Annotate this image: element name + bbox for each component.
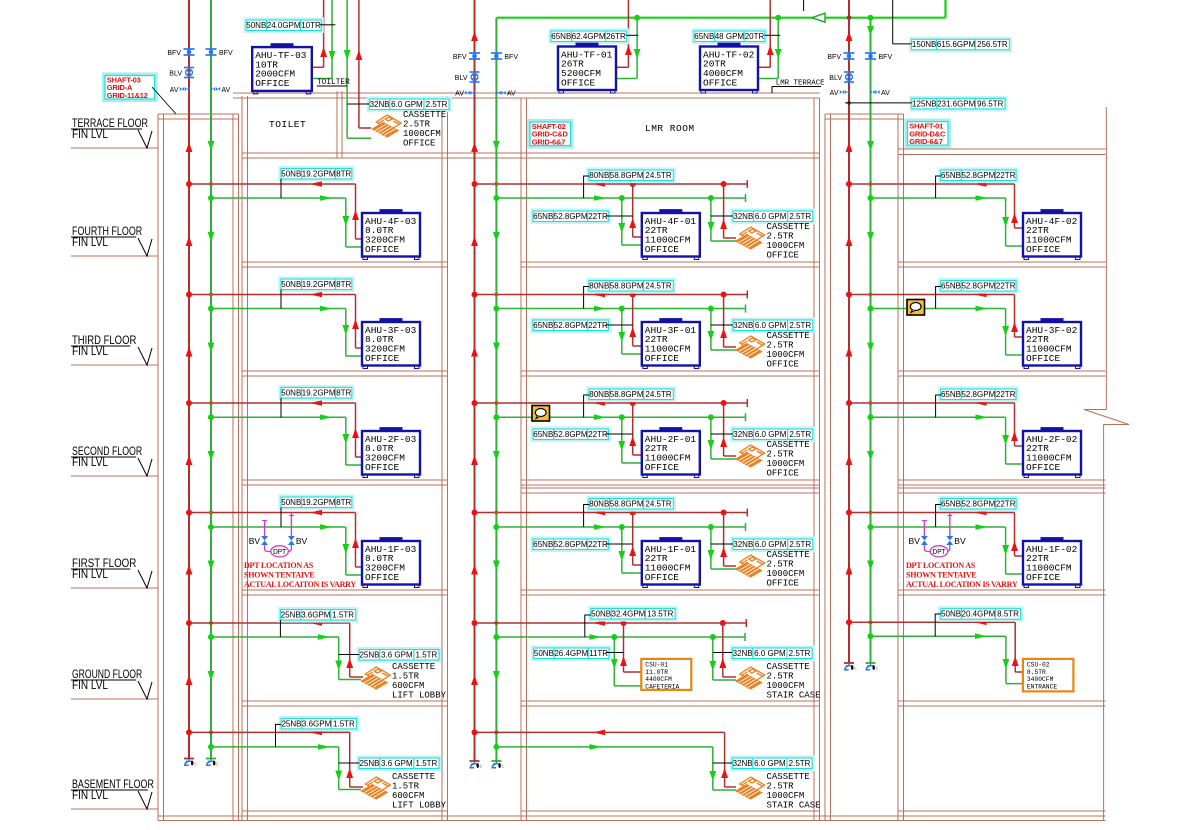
- svg-text:11TR: 11TR: [589, 649, 608, 658]
- svg-text:6.0 GPM: 6.0 GPM: [754, 649, 786, 658]
- svg-text:32NB: 32NB: [733, 649, 753, 658]
- svg-text:OFFICE: OFFICE: [767, 578, 799, 588]
- svg-text:8TR: 8TR: [336, 388, 351, 397]
- svg-text:LMR ROOM: LMR ROOM: [645, 123, 695, 134]
- svg-text:50NB: 50NB: [246, 21, 266, 30]
- svg-text:3.6GPM: 3.6GPM: [301, 610, 331, 619]
- svg-text:ENTRANCE: ENTRANCE: [1027, 684, 1057, 691]
- svg-text:TOILET: TOILET: [269, 119, 306, 130]
- svg-text:OFFICE: OFFICE: [645, 353, 680, 364]
- svg-text:65NB: 65NB: [551, 32, 571, 41]
- svg-text:25NB: 25NB: [359, 650, 379, 659]
- svg-text:c: c: [854, 666, 857, 672]
- svg-text:20.4GPM: 20.4GPM: [962, 610, 996, 619]
- svg-text:32NB: 32NB: [733, 321, 753, 330]
- svg-text:4400CFM: 4400CFM: [645, 676, 672, 683]
- svg-text:58.8GPM: 58.8GPM: [610, 499, 644, 508]
- svg-text:6.0 GPM: 6.0 GPM: [755, 430, 787, 439]
- svg-text:65NB: 65NB: [941, 390, 961, 399]
- svg-text:2.5TR: 2.5TR: [789, 321, 811, 330]
- svg-text:DPT: DPT: [273, 547, 286, 556]
- svg-text:BV: BV: [249, 536, 261, 546]
- svg-text:32.4GPM: 32.4GPM: [612, 609, 646, 618]
- svg-text:32NB: 32NB: [733, 430, 753, 439]
- svg-text:65NB: 65NB: [694, 32, 714, 41]
- svg-text:c: c: [194, 762, 197, 768]
- svg-text:BFV: BFV: [879, 54, 893, 61]
- svg-text:OFFICE: OFFICE: [365, 462, 400, 473]
- svg-text:58.8GPM: 58.8GPM: [610, 171, 644, 180]
- svg-text:AV: AV: [830, 90, 839, 97]
- svg-text:OFFICE: OFFICE: [767, 250, 799, 260]
- svg-text:65NB: 65NB: [533, 321, 553, 330]
- svg-text:24.5TR: 24.5TR: [645, 171, 671, 180]
- svg-text:BFV: BFV: [504, 54, 518, 61]
- svg-text:65NB: 65NB: [941, 281, 961, 290]
- svg-text:GRID-11&12: GRID-11&12: [107, 91, 148, 100]
- svg-text:22TR: 22TR: [588, 212, 608, 221]
- svg-text:19.2GPM: 19.2GPM: [302, 169, 336, 178]
- svg-text:80NB: 80NB: [589, 499, 609, 508]
- svg-text:LIFT LOBBY: LIFT LOBBY: [392, 800, 447, 810]
- svg-text:50NB: 50NB: [281, 388, 301, 397]
- svg-text:BLV: BLV: [829, 75, 842, 82]
- svg-text:2.5TR: 2.5TR: [789, 649, 811, 658]
- svg-text:58.8GPM: 58.8GPM: [610, 390, 644, 399]
- svg-text:50NB: 50NB: [941, 610, 961, 619]
- svg-text:80NB: 80NB: [589, 390, 609, 399]
- svg-text:231.6GPM: 231.6GPM: [937, 99, 976, 108]
- svg-text:32NB: 32NB: [370, 100, 390, 109]
- svg-text:3.6 GPM: 3.6 GPM: [381, 650, 413, 659]
- svg-text:OFFICE: OFFICE: [365, 572, 400, 583]
- svg-text:52.8GPM: 52.8GPM: [961, 499, 995, 508]
- svg-text:96.5TR: 96.5TR: [977, 99, 1003, 108]
- svg-text:50NB: 50NB: [281, 280, 301, 289]
- svg-text:STAIR CASE: STAIR CASE: [767, 800, 821, 810]
- svg-text:19.2GPM: 19.2GPM: [302, 280, 336, 289]
- svg-text:1.5TR: 1.5TR: [416, 759, 438, 768]
- svg-text:OFFICE: OFFICE: [1026, 353, 1061, 364]
- svg-text:OFFICE: OFFICE: [365, 353, 400, 364]
- svg-text:32NB: 32NB: [733, 212, 753, 221]
- svg-text:3.6GPM: 3.6GPM: [302, 719, 332, 728]
- svg-text:6.0 GPM: 6.0 GPM: [755, 321, 787, 330]
- svg-text:25NB: 25NB: [281, 719, 301, 728]
- svg-text:50NB: 50NB: [591, 609, 611, 618]
- svg-text:22TR: 22TR: [588, 430, 608, 439]
- svg-text:8TR: 8TR: [336, 169, 351, 178]
- svg-text:SHOWN TENTAIVE: SHOWN TENTAIVE: [906, 571, 976, 580]
- svg-text:OFFICE: OFFICE: [561, 77, 596, 88]
- svg-text:150NB: 150NB: [912, 40, 936, 49]
- svg-text:6.0 GPM: 6.0 GPM: [391, 100, 423, 109]
- svg-text:80NB: 80NB: [589, 281, 609, 290]
- svg-text:GRID-6&7: GRID-6&7: [532, 138, 565, 147]
- svg-text:CAFETERIA: CAFETERIA: [645, 684, 679, 691]
- svg-text:65NB: 65NB: [533, 430, 553, 439]
- svg-text:OFFICE: OFFICE: [365, 244, 400, 255]
- svg-text:OFFICE: OFFICE: [767, 468, 799, 478]
- svg-text:BV: BV: [954, 536, 966, 546]
- svg-text:256.5TR: 256.5TR: [977, 40, 1008, 49]
- svg-text:2.5TR: 2.5TR: [789, 212, 811, 221]
- svg-text:BV: BV: [296, 536, 308, 546]
- svg-text:OFFICE: OFFICE: [1026, 244, 1061, 255]
- svg-text:65NB: 65NB: [533, 540, 553, 549]
- svg-text:8.5TR: 8.5TR: [997, 610, 1019, 619]
- svg-text:6.0 GPM: 6.0 GPM: [755, 540, 787, 549]
- svg-text:OFFICE: OFFICE: [645, 572, 680, 583]
- svg-text:OFFICE: OFFICE: [403, 138, 435, 148]
- svg-text:1.5TR: 1.5TR: [333, 719, 355, 728]
- svg-text:2.5TR: 2.5TR: [789, 759, 811, 768]
- svg-text:AV: AV: [881, 90, 890, 97]
- svg-text:22TR: 22TR: [588, 540, 608, 549]
- svg-text:62.4GPM: 62.4GPM: [572, 32, 606, 41]
- svg-text:20TR: 20TR: [745, 32, 765, 41]
- svg-text:65NB: 65NB: [941, 171, 961, 180]
- svg-text:c: c: [876, 666, 879, 672]
- svg-text:OFFICE: OFFICE: [767, 359, 799, 369]
- svg-text:DPT LOCATION AS: DPT LOCATION AS: [906, 561, 976, 570]
- svg-text:22TR: 22TR: [996, 281, 1016, 290]
- svg-text:22TR: 22TR: [996, 390, 1016, 399]
- svg-text:58.8GPM: 58.8GPM: [610, 281, 644, 290]
- svg-text:1.5TR: 1.5TR: [332, 610, 354, 619]
- svg-text:50NB: 50NB: [281, 498, 301, 507]
- svg-text:OFFICE: OFFICE: [703, 77, 738, 88]
- svg-text:ACTUAL LOCATION IS VARRY: ACTUAL LOCATION IS VARRY: [906, 580, 1018, 589]
- svg-text:52.8GPM: 52.8GPM: [554, 212, 588, 221]
- svg-text:6.0 GPM: 6.0 GPM: [754, 759, 786, 768]
- svg-text:6.0 GPM: 6.0 GPM: [755, 212, 787, 221]
- svg-text:AV: AV: [455, 91, 464, 98]
- svg-text:65NB: 65NB: [941, 499, 961, 508]
- svg-text:65NB: 65NB: [533, 212, 553, 221]
- svg-text:c: c: [501, 764, 504, 770]
- svg-text:BFV: BFV: [167, 50, 181, 57]
- svg-text:22TR: 22TR: [588, 321, 608, 330]
- svg-text:BFV: BFV: [453, 54, 467, 61]
- svg-text:22TR: 22TR: [996, 499, 1016, 508]
- svg-text:1.5TR: 1.5TR: [416, 650, 438, 659]
- svg-text:52.8GPM: 52.8GPM: [554, 540, 588, 549]
- svg-text:26.4GPM: 26.4GPM: [554, 649, 588, 658]
- svg-text:8TR: 8TR: [336, 280, 351, 289]
- svg-text:52.8GPM: 52.8GPM: [961, 171, 995, 180]
- svg-text:24.5TR: 24.5TR: [645, 390, 671, 399]
- svg-text:52.8GPM: 52.8GPM: [961, 281, 995, 290]
- svg-text:AV: AV: [170, 87, 179, 94]
- svg-text:13.5TR: 13.5TR: [647, 609, 673, 618]
- svg-text:24.5TR: 24.5TR: [645, 499, 671, 508]
- svg-text:BV: BV: [909, 536, 921, 546]
- svg-text:2.5TR: 2.5TR: [789, 540, 811, 549]
- svg-text:BFV: BFV: [219, 50, 233, 57]
- svg-text:BLV: BLV: [455, 75, 468, 82]
- svg-text:OFFICE: OFFICE: [255, 78, 290, 89]
- svg-text:3400CFM: 3400CFM: [1027, 676, 1054, 683]
- svg-text:10TR: 10TR: [301, 21, 321, 30]
- svg-text:3.6 GPM: 3.6 GPM: [381, 759, 413, 768]
- svg-text:11.0TR: 11.0TR: [645, 669, 668, 676]
- svg-text:SHOWN TENTAIVE: SHOWN TENTAIVE: [244, 571, 314, 580]
- svg-text:DPT: DPT: [933, 547, 946, 556]
- svg-text:OFFICE: OFFICE: [1026, 572, 1061, 583]
- svg-text:8TR: 8TR: [336, 498, 351, 507]
- svg-text:LIFT LOBBY: LIFT LOBBY: [392, 690, 447, 700]
- svg-text:2.5TR: 2.5TR: [426, 100, 448, 109]
- svg-text:25NB: 25NB: [281, 610, 301, 619]
- svg-text:48 GPM: 48 GPM: [715, 32, 745, 41]
- svg-text:32NB: 32NB: [733, 540, 753, 549]
- svg-text:c: c: [216, 762, 219, 768]
- svg-text:24.0GPM: 24.0GPM: [267, 21, 301, 30]
- svg-text:52.8GPM: 52.8GPM: [961, 390, 995, 399]
- svg-text:2.5TR: 2.5TR: [789, 430, 811, 439]
- svg-text:OFFICE: OFFICE: [645, 244, 680, 255]
- svg-text:24.5TR: 24.5TR: [645, 281, 671, 290]
- svg-text:615.6GPM: 615.6GPM: [937, 40, 976, 49]
- svg-text:AV: AV: [222, 87, 231, 94]
- svg-text:80NB: 80NB: [589, 171, 609, 180]
- svg-text:AV: AV: [507, 91, 516, 98]
- svg-text:BLV: BLV: [169, 71, 182, 78]
- svg-text:125NB: 125NB: [912, 99, 936, 108]
- svg-text:GRID-6&7: GRID-6&7: [909, 137, 942, 146]
- svg-text:BFV: BFV: [827, 54, 841, 61]
- svg-text:19.2GPM: 19.2GPM: [302, 498, 336, 507]
- svg-text:52.8GPM: 52.8GPM: [554, 430, 588, 439]
- svg-text:DPT LOCATION AS: DPT LOCATION AS: [244, 561, 314, 570]
- svg-text:OFFICE: OFFICE: [645, 462, 680, 473]
- svg-text:50NB: 50NB: [281, 169, 301, 178]
- svg-text:8.5TR: 8.5TR: [1027, 669, 1046, 676]
- svg-text:52.8GPM: 52.8GPM: [554, 321, 588, 330]
- svg-text:ACTUAL LOCAITON IS VARRY: ACTUAL LOCAITON IS VARRY: [244, 580, 356, 589]
- svg-text:CSU-02: CSU-02: [1027, 661, 1050, 668]
- svg-text:50NB: 50NB: [534, 649, 554, 658]
- svg-text:c: c: [480, 764, 483, 770]
- svg-text:25NB: 25NB: [359, 759, 379, 768]
- svg-text:OFFICE: OFFICE: [1026, 462, 1061, 473]
- svg-text:32NB: 32NB: [733, 759, 753, 768]
- svg-text:STAIR CASE: STAIR CASE: [767, 690, 821, 700]
- svg-text:26TR: 26TR: [606, 32, 626, 41]
- svg-text:19.2GPM: 19.2GPM: [302, 388, 336, 397]
- svg-text:22TR: 22TR: [996, 171, 1016, 180]
- svg-text:CSU-01: CSU-01: [645, 661, 668, 668]
